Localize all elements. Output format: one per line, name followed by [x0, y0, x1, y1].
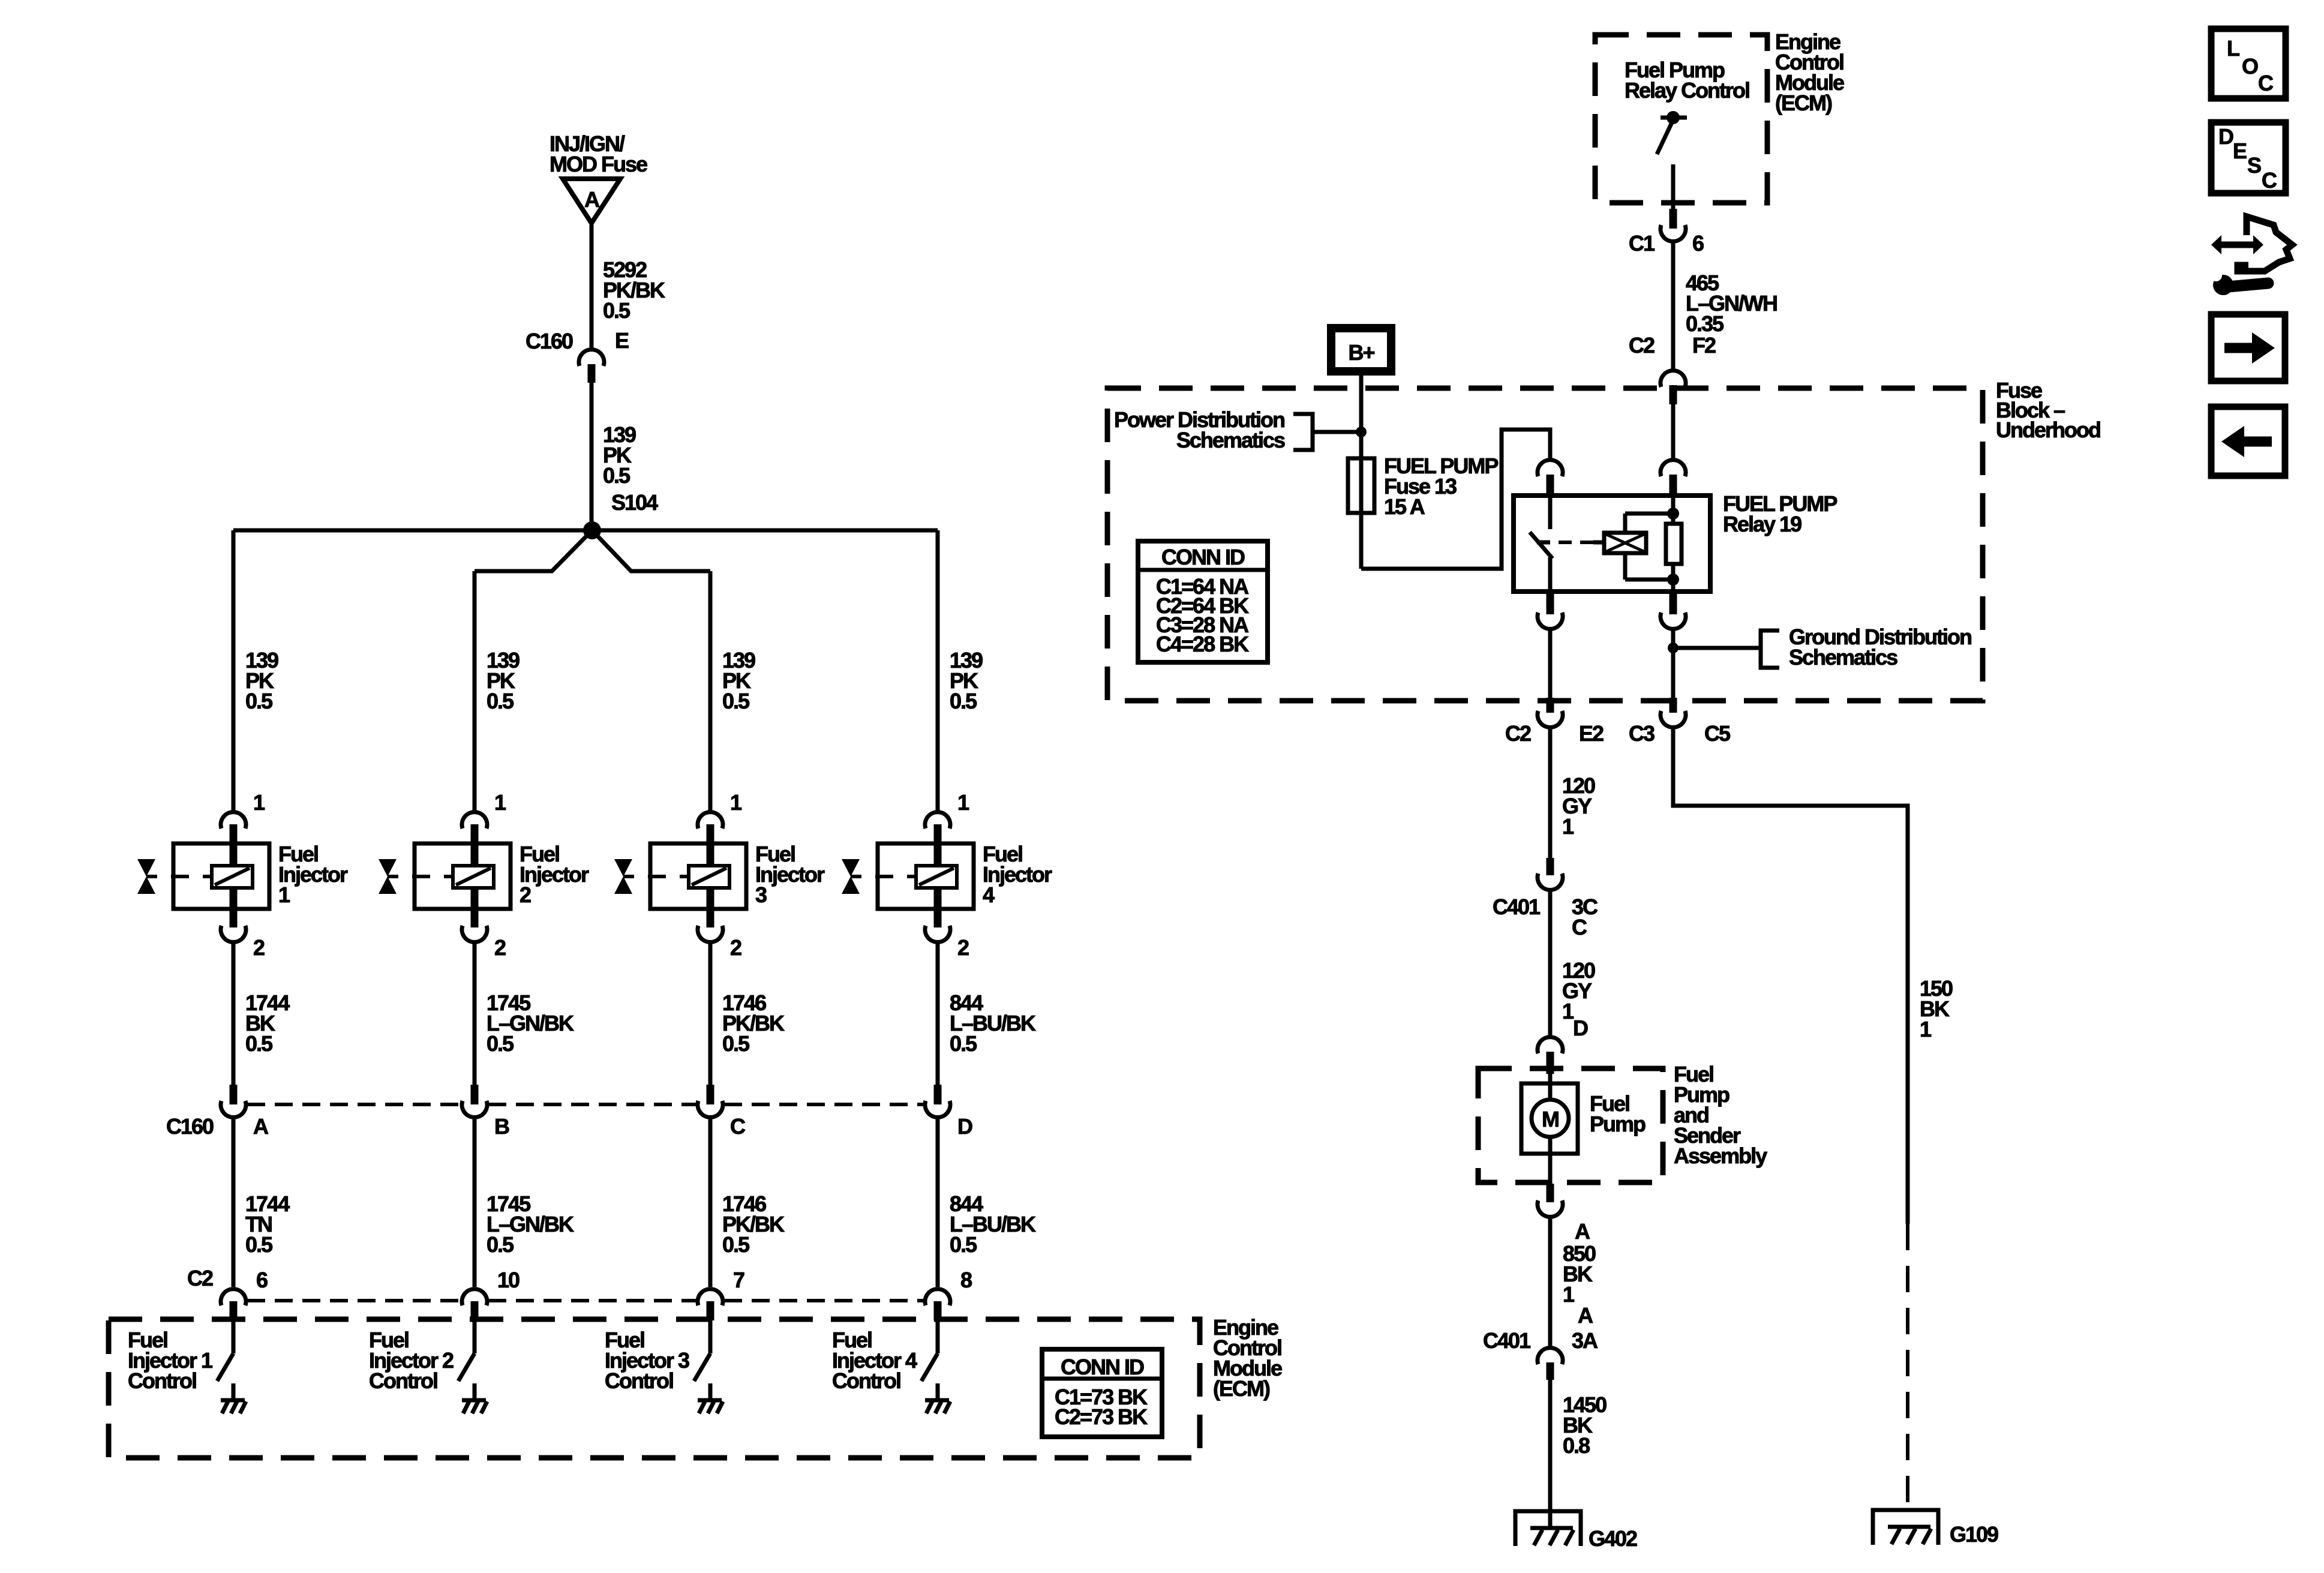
svg-text:G109: G109 — [1950, 1522, 1998, 1547]
connector C160 pin D — [925, 1085, 972, 1139]
wire 150 BK to G109 — [1673, 727, 1953, 1511]
connector C2 pin 10 — [462, 1268, 520, 1320]
svg-text:0.5: 0.5 — [603, 463, 630, 488]
junction ground distribution tap — [1668, 643, 1679, 653]
wire from C2 F2 to relay coil pin — [1671, 404, 1676, 460]
wire 1450 BK to G402 — [1550, 1380, 1607, 1529]
wire 844 L–BU/BK injector 4 to C160 — [938, 941, 1036, 1085]
ground G402 — [1515, 1511, 1637, 1551]
svg-text:1: 1 — [1562, 999, 1574, 1023]
connector C160 pin E — [526, 328, 629, 383]
svg-text:0.5: 0.5 — [487, 1232, 514, 1257]
wire 120 GY to fuel pump pin D — [1550, 889, 1595, 1037]
power distribution schematics reference — [1114, 407, 1356, 452]
ECM internal ground (injector 2 driver) — [462, 1383, 487, 1413]
DESC icon — [2211, 122, 2286, 193]
svg-text:S: S — [2247, 153, 2261, 178]
connector C2 pin 6 — [221, 1268, 268, 1320]
svg-text:C1: C1 — [1629, 231, 1655, 256]
wire relay coil ground to fuse block exit — [1671, 628, 1676, 698]
svg-text:1: 1 — [1562, 814, 1574, 839]
svg-text:C2=73 BK: C2=73 BK — [1055, 1404, 1148, 1429]
ECM label right — [1775, 29, 1844, 115]
fuel pump and sender assembly label — [1674, 1062, 1767, 1168]
wire B+ to fuse — [1359, 376, 1364, 569]
svg-text:1: 1 — [278, 882, 290, 907]
svg-text:1: 1 — [1920, 1017, 1932, 1041]
relay coil pin connector (top right) — [1661, 460, 1686, 496]
harness view icon (arrows and wrench) — [2210, 217, 2292, 295]
svg-text:0.35: 0.35 — [1686, 311, 1724, 336]
fuel pump relay 19 — [1514, 496, 1710, 592]
svg-text:C401: C401 — [1493, 894, 1541, 919]
connector C160 pin B — [462, 1085, 509, 1139]
injector 2 pin 2 connector — [462, 909, 506, 960]
injector 3 pin 2 connector — [698, 909, 741, 960]
svg-text:C: C — [2258, 71, 2274, 95]
wire 1744 BK injector 1 to C160 — [233, 941, 290, 1085]
C2 label — [187, 1266, 213, 1290]
svg-text:6: 6 — [256, 1268, 268, 1292]
fuse symbol A (INJ/IGN/MOD Fuse) — [550, 131, 647, 223]
wire 844 L–BU/BK C160 to ECM C2 — [938, 1116, 1036, 1287]
svg-text:C5: C5 — [1704, 721, 1731, 746]
svg-text:0.5: 0.5 — [487, 689, 514, 713]
connector C2 pin F2 — [1629, 333, 1716, 404]
svg-text:1: 1 — [1563, 1282, 1575, 1307]
svg-text:(ECM): (ECM) — [1213, 1376, 1270, 1401]
svg-text:2: 2 — [253, 935, 265, 960]
injector 4 pin 2 connector — [925, 909, 969, 960]
svg-text:7: 7 — [733, 1268, 744, 1292]
fuel injector 4 — [842, 842, 1052, 909]
svg-text:2: 2 — [520, 882, 531, 907]
C2 connector row dashed line — [247, 1299, 924, 1302]
svg-text:15 A: 15 A — [1384, 494, 1425, 519]
svg-text:0.5: 0.5 — [722, 1031, 750, 1056]
B+ power feed — [1327, 324, 1395, 376]
wire 139 PK branch to injector 1 pin 1 — [233, 530, 278, 812]
svg-text:1: 1 — [494, 790, 506, 815]
ECM label left — [1213, 1315, 1282, 1401]
connector C401 pin 3C / C — [1493, 858, 1598, 939]
C160 connector row dashed line — [247, 1103, 924, 1106]
svg-text:O: O — [2242, 54, 2258, 79]
svg-text:Pump: Pump — [1590, 1112, 1646, 1136]
fuel injector 2 control driver (ECM low-side switch) — [369, 1320, 475, 1393]
svg-text:2: 2 — [730, 935, 741, 960]
fuel pump fuse 13 — [1348, 454, 1498, 519]
injector 2 pin 1 connector — [462, 790, 506, 843]
svg-text:A: A — [584, 187, 600, 212]
svg-text:0.5: 0.5 — [245, 1232, 273, 1257]
svg-text:G402: G402 — [1589, 1526, 1637, 1551]
svg-text:0.5: 0.5 — [245, 1031, 273, 1056]
wire 5292 PK/BK from fuse to C160 E — [591, 223, 665, 350]
svg-text:0.5: 0.5 — [722, 1232, 750, 1257]
svg-text:D: D — [957, 1114, 972, 1139]
svg-text:C160: C160 — [166, 1114, 214, 1139]
svg-text:E2: E2 — [1579, 721, 1604, 746]
svg-text:Relay 19: Relay 19 — [1723, 512, 1801, 536]
svg-text:E: E — [615, 328, 629, 353]
relay 19 label — [1723, 491, 1837, 536]
svg-text:0.5: 0.5 — [950, 689, 977, 713]
svg-text:Assembly: Assembly — [1674, 1143, 1767, 1168]
LOC icon — [2211, 29, 2286, 98]
svg-text:0.5: 0.5 — [245, 689, 273, 713]
svg-text:1: 1 — [957, 790, 969, 815]
svg-text:C: C — [1572, 915, 1587, 939]
svg-text:3A: 3A — [1572, 1328, 1598, 1353]
fuel injector 3 — [614, 842, 825, 909]
svg-text:L: L — [2227, 36, 2239, 61]
ground G109 — [1873, 1510, 1998, 1547]
svg-text:A: A — [1578, 1303, 1593, 1328]
fuel pump and sender assembly box — [1478, 1068, 1663, 1182]
svg-text:MOD Fuse: MOD Fuse — [550, 152, 647, 176]
wire 465 L-GN/WH — [1673, 241, 1777, 371]
svg-text:0.5: 0.5 — [487, 1031, 514, 1056]
svg-text:6: 6 — [1692, 231, 1704, 256]
connector C2 pin E2 — [1505, 698, 1604, 746]
svg-text:(ECM): (ECM) — [1775, 91, 1832, 115]
injector 1 pin 1 connector — [221, 790, 265, 843]
wire 850 BK to C401 — [1550, 1216, 1596, 1347]
CONN ID table (fuse block) — [1138, 541, 1268, 662]
svg-text:CONN ID: CONN ID — [1161, 545, 1245, 569]
connector C1 pin 6 — [1629, 209, 1704, 256]
injector 3 pin 1 connector — [698, 790, 742, 843]
connector C160 pin A — [221, 1085, 269, 1139]
junction power distribution tap — [1356, 427, 1367, 437]
svg-text:E: E — [2233, 139, 2247, 163]
fuse block underhood box — [1107, 388, 1983, 701]
wire 1745 L–GN/BK C160 to ECM C2 — [475, 1116, 574, 1287]
svg-text:C401: C401 — [1483, 1328, 1531, 1353]
svg-text:B: B — [494, 1114, 509, 1139]
wire 1746 PK/BK injector 3 to C160 — [710, 941, 785, 1085]
svg-text:C2: C2 — [1505, 721, 1531, 746]
wire 1746 PK/BK C160 to ECM C2 — [710, 1116, 785, 1287]
svg-text:F2: F2 — [1692, 333, 1716, 358]
svg-text:2: 2 — [957, 935, 969, 960]
ECM internal ground (injector 1 driver) — [221, 1383, 246, 1413]
connector C3 pin C5 — [1629, 698, 1731, 746]
svg-text:Underhood: Underhood — [1996, 418, 2100, 442]
relay coil ground pin connector (bottom right) — [1661, 592, 1686, 629]
svg-text:B+: B+ — [1348, 340, 1374, 365]
CONN ID table (ECM left) — [1042, 1349, 1162, 1437]
svg-text:Control: Control — [369, 1368, 437, 1393]
svg-text:M: M — [1542, 1107, 1559, 1131]
svg-text:C160: C160 — [526, 329, 573, 353]
connector C2 pin 8 — [925, 1268, 972, 1320]
svg-text:C3: C3 — [1629, 721, 1655, 746]
splice S104 — [583, 490, 658, 539]
fuse block label — [1996, 378, 2100, 442]
connector C160 pin C — [698, 1085, 746, 1139]
svg-text:Control: Control — [832, 1368, 900, 1393]
injector 1 pin 2 connector — [221, 909, 265, 960]
svg-text:0.5: 0.5 — [950, 1031, 977, 1056]
svg-text:0.5: 0.5 — [950, 1232, 977, 1257]
svg-text:Schematics: Schematics — [1176, 428, 1285, 452]
wire 1744 TN C160 to ECM C2 — [233, 1116, 290, 1287]
fuel pump motor M — [1521, 1074, 1646, 1184]
fuel pump pin D connector — [1538, 1016, 1588, 1074]
svg-text:C: C — [730, 1114, 746, 1139]
engine control module (ECM) box left — [109, 1319, 1200, 1458]
relay output pin connector (bottom left) — [1538, 592, 1563, 629]
wire 120 GY to C401 — [1550, 727, 1595, 858]
svg-text:C: C — [2262, 168, 2277, 193]
wire 139 PK branch to injector 4 pin 1 — [938, 530, 983, 812]
wire 139 PK from C160 E to splice S104 — [591, 383, 636, 530]
svg-text:Control: Control — [128, 1368, 196, 1393]
ECM internal ground (injector 4 driver) — [925, 1383, 950, 1413]
svg-text:Control: Control — [605, 1368, 673, 1393]
fuel injector 2 — [379, 842, 589, 909]
bus wire from S104 to injector columns — [233, 530, 938, 571]
svg-text:A: A — [253, 1114, 269, 1139]
fuel injector 4 control driver (ECM low-side switch) — [832, 1320, 938, 1393]
engine control module (ECM) box right — [1595, 35, 1767, 203]
svg-text:1: 1 — [730, 790, 742, 815]
svg-text:Relay Control: Relay Control — [1625, 78, 1749, 103]
svg-text:0.5: 0.5 — [603, 298, 630, 323]
connector C401 pin A / 3A — [1483, 1328, 1598, 1380]
fuel injector 1 control driver (ECM low-side switch) — [128, 1320, 233, 1393]
svg-text:3: 3 — [755, 882, 767, 907]
svg-text:Schematics: Schematics — [1789, 645, 1897, 670]
svg-text:0.8: 0.8 — [1563, 1433, 1590, 1458]
fuel injector 3 control driver (ECM low-side switch) — [605, 1320, 710, 1393]
svg-text:10: 10 — [497, 1268, 520, 1292]
svg-text:C2: C2 — [1629, 333, 1655, 358]
ground distribution schematics reference — [1673, 625, 1971, 670]
svg-text:C4=28 BK: C4=28 BK — [1156, 632, 1249, 656]
svg-text:C2: C2 — [187, 1266, 213, 1290]
previous page icon (left arrow) — [2211, 407, 2285, 476]
svg-text:S104: S104 — [611, 490, 658, 515]
svg-text:8: 8 — [960, 1268, 972, 1292]
svg-text:CONN ID: CONN ID — [1061, 1355, 1144, 1379]
next page icon (right arrow) — [2211, 314, 2285, 381]
svg-text:0.5: 0.5 — [722, 689, 750, 713]
injector 4 pin 1 connector — [925, 790, 969, 843]
wire 139 PK branch to injector 3 pin 1 — [710, 571, 755, 812]
connector C2 pin 7 — [698, 1268, 744, 1320]
relay contact pin connector (top left) — [1538, 460, 1563, 496]
wire 1745 L–GN/BK injector 2 to C160 — [475, 941, 574, 1085]
svg-text:4: 4 — [983, 882, 995, 907]
wire relay output to fuse block exit — [1548, 628, 1553, 698]
svg-text:2: 2 — [494, 935, 506, 960]
C160 label — [166, 1114, 214, 1139]
wire fuse to relay contact pin — [1361, 430, 1550, 569]
svg-text:D: D — [2218, 124, 2233, 149]
svg-text:D: D — [1573, 1016, 1588, 1040]
fuel injector 1 — [137, 842, 348, 909]
fuel pump relay control driver (ECM switch) — [1625, 58, 1749, 209]
ECM internal ground (injector 3 driver) — [698, 1383, 723, 1413]
svg-text:A: A — [1575, 1219, 1590, 1244]
fuel pump pin A connector — [1538, 1184, 1590, 1244]
svg-text:1: 1 — [253, 790, 265, 815]
wire 139 PK branch to injector 2 pin 1 — [475, 571, 520, 812]
